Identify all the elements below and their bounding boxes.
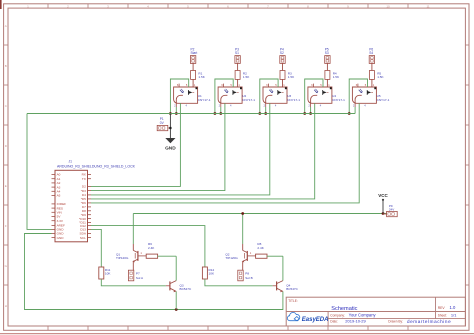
J1 right pin *D9 — [81, 213, 91, 217]
wire Q4 collector up to R8 — [282, 256, 284, 280]
svg-text:Sheet:: Sheet: — [438, 313, 447, 317]
svg-text:1.5K: 1.5K — [243, 75, 250, 79]
svg-text:1: 1 — [250, 251, 252, 255]
resistor R11 10K — [99, 267, 112, 279]
svg-text:1.0: 1.0 — [450, 305, 456, 310]
J1 right pin *D10 — [79, 217, 91, 221]
optocoupler U3 CNY17-1 — [263, 83, 300, 107]
J1 left pin A2 — [52, 181, 61, 185]
ground symbol GND — [165, 131, 176, 152]
J1 left pin A0 — [52, 173, 61, 177]
wire R11 to Q3 base — [101, 279, 166, 286]
wire D12 to R12 — [91, 226, 205, 267]
connector P3 (S1) — [235, 47, 240, 63]
svg-text:Your Company: Your Company — [349, 313, 377, 318]
J1 left pin 5V — [52, 215, 62, 219]
J1 right pin D12 — [80, 224, 91, 228]
optocoupler U5 CNY17-1 — [352, 83, 389, 107]
wire U4 collector (pin 5) to common bus — [305, 79, 323, 114]
svg-text:10: 10 — [386, 4, 390, 8]
J1 left pin A4 — [52, 190, 61, 194]
svg-text:1/1: 1/1 — [451, 313, 457, 318]
transistor Q3 BC547C — [166, 281, 192, 293]
wire shield GND2 to bottom ground rail — [25, 234, 283, 310]
svg-text:1.5K: 1.5K — [377, 75, 384, 79]
wire R2 to U2 pin 1 — [237, 79, 239, 87]
J1 left pin GND — [52, 232, 65, 236]
svg-text:B: B — [5, 64, 7, 68]
junction on bus at U2 cathode — [219, 112, 222, 115]
J1 left pin VIN — [52, 211, 62, 215]
svg-text:F: F — [5, 224, 7, 228]
optocoupler U2 CNY17-1 — [218, 83, 255, 107]
J1 right pin D2 — [82, 185, 91, 189]
wire R3 to U3 pin 1 — [282, 79, 284, 87]
wire Q1 emitter to P7 — [132, 264, 134, 271]
J1 left pin A1 — [52, 177, 61, 181]
title block — [286, 297, 465, 326]
J1 left pin AREF — [52, 224, 65, 228]
svg-text:BC547C: BC547C — [286, 287, 298, 291]
J1 right pin D4 — [82, 193, 91, 197]
J1 right pin *D11 — [79, 221, 91, 225]
svg-text:2: 2 — [264, 104, 266, 108]
svg-text:0V: 0V — [160, 121, 165, 125]
svg-text:4: 4 — [186, 104, 188, 108]
wire U2 cathode (pin 2) to common bus — [220, 107, 222, 114]
svg-text:C: C — [5, 104, 8, 108]
junction on bus at U4 cathode — [309, 112, 312, 115]
wire U5 emitter (pin 4) to shield D6 — [91, 103, 359, 203]
wire R8 to Q4 collector node — [267, 255, 283, 257]
J1 right pin D8 — [82, 209, 91, 213]
junction P1 to GND wire — [169, 127, 171, 129]
junction on bus at U1 cathode — [175, 112, 178, 115]
J1 right pin *D5 — [81, 197, 91, 201]
optocoupler U1 CNY17-1 — [174, 83, 211, 107]
wire VCC rail — [133, 213, 386, 215]
svg-text:Sol A: Sol A — [136, 276, 144, 280]
svg-text:CNY17-1: CNY17-1 — [242, 98, 255, 102]
svg-text:S1: S1 — [235, 51, 239, 55]
connector P7 (Sol A) — [128, 270, 144, 281]
wire R6 to Q3 collector node — [158, 255, 177, 257]
connector P5 (S3) — [325, 47, 330, 63]
svg-text:S4: S4 — [369, 51, 373, 55]
wire U5 collector (pin 5) to common bus — [349, 79, 367, 114]
wire P6 to R5 — [371, 63, 373, 70]
svg-text:Drawn By:: Drawn By: — [388, 320, 403, 324]
junction rail at Q2 collector — [241, 212, 244, 215]
connector P1 (0V) — [157, 117, 170, 131]
resistor R12 10K — [202, 267, 215, 279]
transistor Q4 BC547C — [273, 281, 299, 293]
J1 left pin RES — [52, 206, 63, 210]
svg-text:REV: REV — [438, 306, 446, 310]
junction on bus at U2 collector — [214, 112, 217, 115]
svg-text:4: 4 — [320, 104, 322, 108]
wire U4 emitter (pin 4) to shield D5 — [91, 103, 315, 199]
wire R1 to U1 pin 1 — [192, 79, 194, 87]
connector P4 (S2) — [280, 47, 285, 63]
svg-text:D: D — [5, 144, 8, 148]
svg-text:1.5K: 1.5K — [288, 75, 295, 79]
junction rail at VCC — [382, 212, 385, 215]
transistor Q1 TIP120G — [116, 248, 146, 264]
J1 right pin D13 — [80, 228, 91, 232]
wire R4 to U4 pin 1 — [326, 79, 328, 87]
svg-text:2: 2 — [174, 104, 176, 108]
wire U4 cathode (pin 2) to common bus — [310, 107, 312, 114]
svg-text:ARDUINO_R3_SHIELDUNO_R3_SHIELD: ARDUINO_R3_SHIELDUNO_R3_SHIELD_LOCK — [57, 165, 136, 169]
junction on bus at U3 cathode — [264, 112, 267, 115]
wire R12 to Q4 base — [205, 279, 273, 286]
svg-text:TX: TX — [82, 177, 86, 181]
svg-text:Schematic: Schematic — [331, 306, 357, 312]
wire common bus (0V net) — [27, 113, 355, 115]
J1 right pin D7 — [82, 205, 91, 209]
J1 left pin GND — [52, 228, 65, 232]
svg-text:10K: 10K — [105, 272, 111, 276]
connector P6 (S4) — [369, 47, 374, 63]
wire Q1 collector to VCC rail — [132, 214, 134, 245]
J1 right pin SCL — [80, 236, 91, 240]
svg-text:4: 4 — [275, 104, 277, 108]
resistor R1 1.5K — [191, 71, 206, 80]
svg-text:1.5K: 1.5K — [333, 75, 340, 79]
svg-text:E: E — [5, 184, 7, 188]
junction on bus at U4 collector — [303, 112, 306, 115]
wire U1 cathode (pin 2) to common bus — [175, 107, 177, 114]
svg-text:2: 2 — [353, 104, 355, 108]
svg-text:1.5K: 1.5K — [198, 75, 205, 79]
resistor R8 2.4K — [256, 242, 267, 258]
wire U2 emitter (pin 4) to shield D3 — [91, 103, 225, 190]
svg-text:4: 4 — [230, 104, 232, 108]
svg-text:CNY17-1: CNY17-1 — [198, 98, 211, 102]
junction on bus at U3 collector — [258, 112, 261, 115]
wire bus down to GND symbol — [169, 114, 171, 132]
svg-text:Start: Start — [191, 51, 198, 55]
power symbol VCC — [378, 193, 388, 213]
J1 left pin 3.3V — [52, 219, 64, 223]
connector P9 (24V) — [383, 204, 397, 217]
resistor R2 1.5K — [235, 71, 250, 80]
wire P4 to R3 — [282, 63, 284, 70]
svg-text:CNY17-1: CNY17-1 — [377, 98, 390, 102]
svg-text:BC547C: BC547C — [180, 287, 192, 291]
wire U3 collector (pin 5) to common bus — [260, 79, 278, 114]
svg-text:2019-10-29: 2019-10-29 — [345, 319, 366, 324]
svg-text:10K: 10K — [209, 272, 215, 276]
svg-text:S2: S2 — [280, 51, 284, 55]
J1 right pin SDA — [80, 232, 91, 236]
svg-text:A5: A5 — [57, 194, 61, 198]
svg-text:3.3V: 3.3V — [57, 219, 64, 223]
wire P3 to R2 — [237, 63, 239, 70]
resistor R6 2.4K — [146, 242, 157, 258]
svg-text:1: 1 — [140, 251, 142, 255]
svg-text:GND: GND — [57, 236, 65, 240]
svg-text:CNY17-1: CNY17-1 — [287, 98, 300, 102]
svg-text:VCC: VCC — [378, 193, 388, 198]
J1 left pin A3 — [52, 185, 61, 189]
wire bus to shield GND (left loop) — [27, 114, 52, 230]
svg-text:TIP120G: TIP120G — [116, 256, 129, 260]
J1 right pin TX — [82, 177, 91, 181]
svg-text:2.4K: 2.4K — [257, 246, 264, 250]
wire Q2 emitter to P8 — [242, 264, 244, 271]
wire U1 emitter (pin 4) to shield D2 — [91, 103, 180, 186]
svg-text:S3: S3 — [325, 51, 329, 55]
svg-text:J1: J1 — [69, 160, 73, 164]
svg-text:CNY17-1: CNY17-1 — [332, 98, 345, 102]
wire P2 to R1 — [192, 63, 194, 70]
junction on bus at U1 collector — [169, 112, 172, 115]
wire R5 to U5 pin 1 — [371, 79, 373, 87]
svg-text:2: 2 — [219, 104, 221, 108]
J1 left pin IOREF — [52, 202, 67, 206]
J1 left pin GND — [52, 236, 65, 240]
resistor R5 1.5K — [369, 71, 384, 80]
wire U1 collector (pin 5) to common bus — [170, 79, 188, 114]
svg-text:A: A — [5, 24, 7, 28]
J1 left pin A5 — [52, 194, 61, 198]
svg-text:GND: GND — [165, 146, 176, 152]
resistor R3 1.5K — [280, 71, 295, 80]
wire Q3 collector up to R6 — [175, 256, 177, 280]
wire P5 to R4 — [326, 63, 328, 70]
svg-text:2.4K: 2.4K — [148, 246, 155, 250]
wire Q2 collector to VCC rail — [242, 214, 244, 245]
J1 right pin RX — [82, 173, 91, 177]
J1 right pin *D6 — [81, 201, 91, 205]
svg-text:H: H — [5, 304, 7, 308]
IC J1 ARDUINO_R3_SHIELD — [55, 160, 136, 242]
svg-text:2: 2 — [308, 104, 310, 108]
svg-text:TITLE:: TITLE: — [288, 299, 298, 303]
svg-text:G: G — [5, 264, 8, 268]
junction bottom rail at Q3 emitter — [175, 308, 178, 311]
wire U2 collector (pin 5) to common bus — [215, 79, 233, 114]
wire D13 to R11 — [91, 229, 101, 267]
svg-text:Sol B: Sol B — [245, 276, 252, 280]
svg-text:demartelmachine: demartelmachine — [407, 319, 451, 324]
J1 right pin *D3 — [81, 189, 91, 193]
wire U3 cathode (pin 2) to common bus — [265, 107, 267, 114]
svg-text:SCL: SCL — [80, 236, 86, 240]
resistor R4 1.5K — [325, 71, 340, 80]
svg-text:Company:: Company: — [330, 313, 345, 317]
connector P8 (Sol B) — [238, 270, 253, 281]
optocoupler U4 CNY17-1 — [308, 83, 345, 107]
svg-text:11: 11 — [426, 4, 429, 8]
wire U3 emitter (pin 4) to shield D4 — [91, 103, 270, 195]
junction on bus at U5 collector — [348, 112, 351, 115]
svg-text:TIP120G: TIP120G — [225, 256, 238, 260]
transistor Q2 TIP120G — [225, 248, 255, 264]
svg-text:Date:: Date: — [330, 320, 338, 324]
svg-text:4: 4 — [364, 104, 366, 108]
wire U5 cathode (pin 2) to common bus — [354, 107, 356, 114]
svg-text:EasyEDA: EasyEDA — [302, 317, 329, 323]
EasyEDA logo — [287, 312, 328, 323]
wire Q3 emitter to ground rail — [175, 291, 177, 309]
connector P2 (Start) — [190, 47, 197, 63]
